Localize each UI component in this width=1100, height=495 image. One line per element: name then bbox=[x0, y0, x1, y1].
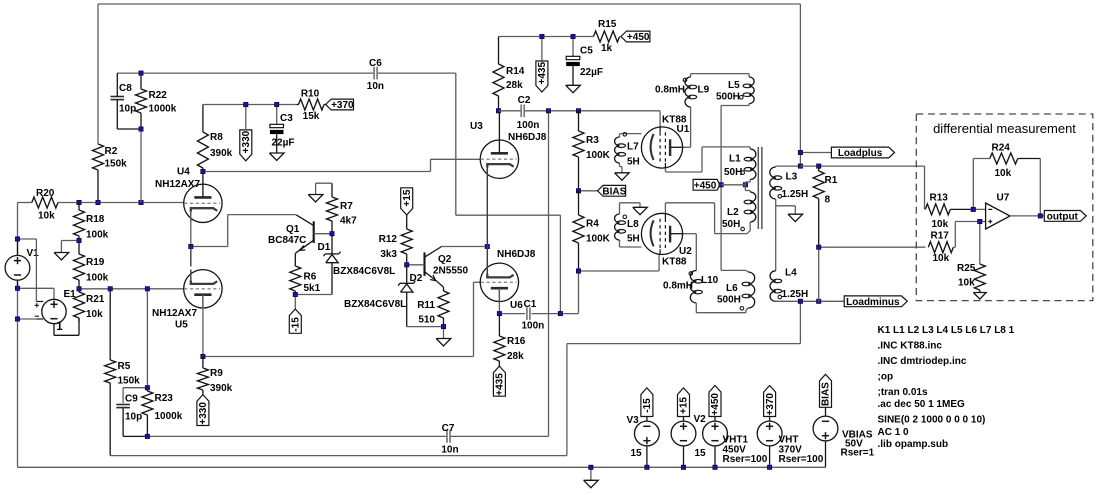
net flag +450 top bbox=[621, 31, 650, 43]
svg-text:R1: R1 bbox=[825, 175, 838, 186]
wire U6 plate to C1 bbox=[498, 288, 500, 313]
svg-text:L5: L5 bbox=[728, 80, 740, 91]
wire L7 to ground bbox=[620, 163, 622, 173]
capacitor C1 bbox=[499, 307, 560, 320]
label C7 bbox=[441, 423, 458, 456]
svg-text:+370: +370 bbox=[765, 393, 776, 416]
svg-text:+330: +330 bbox=[198, 402, 209, 425]
label R15 bbox=[598, 19, 617, 54]
label R24 bbox=[992, 143, 1012, 180]
net flag +435 below R16 bbox=[493, 366, 505, 396]
junction dots source rail bbox=[645, 465, 772, 469]
label U7 bbox=[997, 193, 1010, 204]
svg-text:.INC KT88.inc: .INC KT88.inc bbox=[878, 341, 943, 352]
svg-text:KT88: KT88 bbox=[662, 257, 687, 268]
label L2 bbox=[722, 207, 740, 230]
net flag BIAS bbox=[579, 185, 627, 197]
resistor R14 bbox=[493, 37, 504, 111]
label R18 bbox=[86, 214, 109, 241]
ground R11 bbox=[436, 339, 451, 346]
pentode U2 KT88 bbox=[641, 213, 683, 254]
capacitor C2 bbox=[521, 105, 524, 118]
label VHT1 bbox=[723, 435, 768, 466]
svg-text:100K: 100K bbox=[586, 234, 611, 245]
resistor R11 bbox=[438, 291, 449, 327]
svg-text:NH6DJ8: NH6DJ8 bbox=[508, 132, 547, 143]
inductor L9 bbox=[683, 77, 697, 107]
junction dots R8 row bbox=[244, 102, 279, 106]
svg-text:5H: 5H bbox=[627, 234, 640, 245]
svg-text:15: 15 bbox=[631, 448, 643, 459]
svg-text:R9: R9 bbox=[210, 368, 223, 379]
triode U5 NH12AX7 bbox=[184, 247, 222, 309]
diode D1 BZX84C6V8L bbox=[323, 234, 340, 295]
wire Loadplus stub bbox=[800, 152, 831, 154]
svg-text:5H: 5H bbox=[627, 157, 640, 168]
svg-text:U2: U2 bbox=[679, 246, 692, 257]
svg-text:R14: R14 bbox=[506, 66, 525, 77]
label R9 bbox=[210, 368, 233, 394]
label U3 bbox=[470, 121, 547, 143]
inductor L4 bbox=[770, 271, 782, 302]
junction dots V1/E1 bbox=[15, 237, 19, 321]
resistor R23 bbox=[142, 388, 153, 437]
junction dots R22 bbox=[139, 71, 143, 131]
wire U4 grid row bbox=[58, 202, 184, 204]
junction dot U5 plate bbox=[201, 354, 205, 358]
svg-text:BZX84C6V8L: BZX84C6V8L bbox=[333, 266, 395, 277]
label C6 bbox=[367, 58, 384, 92]
wire top supply row bbox=[499, 36, 594, 38]
label U6 tube bbox=[497, 249, 536, 260]
resistor R15 bbox=[594, 31, 620, 42]
resistor R16 bbox=[494, 314, 505, 367]
net flag Loadminus bbox=[844, 296, 907, 308]
svg-text:22µF: 22µF bbox=[580, 67, 603, 78]
label R16 bbox=[507, 336, 526, 362]
svg-text:L3: L3 bbox=[786, 172, 798, 183]
ground R7 bbox=[308, 195, 323, 202]
label C1 bbox=[510, 299, 544, 332]
resistor R7 bbox=[327, 183, 338, 234]
wire L3 bottom to L4 top bbox=[775, 199, 777, 271]
svg-text:L10: L10 bbox=[701, 275, 719, 286]
diode D2 BZX84C6V8L bbox=[398, 265, 415, 327]
label differential measurement bbox=[933, 121, 1076, 136]
label L4 bbox=[782, 268, 809, 301]
resistor R13 bbox=[925, 204, 973, 215]
label R25 bbox=[957, 263, 976, 289]
svg-text:C6: C6 bbox=[369, 58, 382, 69]
net flag output bbox=[1044, 211, 1086, 223]
wire Q2 collector bbox=[442, 246, 488, 248]
label U5 bbox=[152, 308, 197, 331]
label C9 bbox=[125, 394, 142, 423]
resistor R22 bbox=[136, 73, 147, 129]
wire R23 top drop bbox=[146, 289, 148, 388]
svg-text:1.25H: 1.25H bbox=[782, 189, 809, 200]
svg-text:Rser=1: Rser=1 bbox=[841, 448, 875, 459]
svg-text:R22: R22 bbox=[149, 90, 168, 101]
svg-text:C2: C2 bbox=[518, 95, 531, 106]
svg-text:100k: 100k bbox=[86, 273, 109, 284]
label L5 bbox=[716, 80, 740, 103]
wire C8R22 top bbox=[117, 72, 141, 74]
svg-text:R5: R5 bbox=[118, 361, 131, 372]
svg-text:1k: 1k bbox=[601, 43, 613, 54]
svg-text:+330: +330 bbox=[241, 130, 252, 153]
svg-text:+435: +435 bbox=[537, 62, 548, 85]
net flag +450 transformer bbox=[693, 179, 720, 191]
label D2 bbox=[344, 273, 423, 310]
svg-text:R18: R18 bbox=[86, 214, 105, 225]
wire R1 bottom drop bbox=[818, 247, 820, 301]
svg-text:+450: +450 bbox=[710, 393, 721, 416]
svg-text:-15: -15 bbox=[291, 317, 302, 332]
svg-text:R25: R25 bbox=[957, 263, 976, 274]
wire U5 plate to U6 grid bbox=[203, 282, 480, 356]
label R12 bbox=[379, 234, 398, 260]
svg-text:SINE(0 2 1000 0 0 0 10): SINE(0 2 1000 0 0 0 10) bbox=[878, 414, 986, 425]
svg-text:V2: V2 bbox=[694, 414, 707, 425]
svg-text:C3: C3 bbox=[280, 113, 293, 124]
svg-text:0.8mH: 0.8mH bbox=[663, 281, 693, 292]
label L8 bbox=[627, 219, 640, 245]
svg-text:+15: +15 bbox=[679, 397, 690, 414]
junction dot U4 cathode bbox=[189, 244, 193, 248]
svg-text:22µF: 22µF bbox=[272, 138, 295, 149]
svg-text:L4: L4 bbox=[785, 268, 797, 279]
label R2 bbox=[105, 146, 128, 170]
wire D2 to R11 bottom bbox=[407, 327, 444, 339]
triode U6 NH6DJ8 bbox=[480, 263, 518, 301]
svg-text:10k: 10k bbox=[932, 219, 949, 230]
net flag +330 bbox=[240, 105, 252, 161]
svg-text:0.8mH: 0.8mH bbox=[655, 85, 685, 96]
inductor L8 bbox=[615, 214, 627, 240]
svg-text:5k1: 5k1 bbox=[304, 283, 321, 294]
svg-text:R12: R12 bbox=[379, 234, 398, 245]
wire R6 to D1 bbox=[295, 294, 332, 296]
svg-text:R20: R20 bbox=[36, 188, 55, 199]
wire L5 bottom to +450 node bbox=[721, 104, 749, 271]
ground L3 bbox=[788, 214, 803, 221]
svg-text:+15: +15 bbox=[402, 189, 413, 206]
svg-text:10n: 10n bbox=[367, 81, 384, 92]
svg-text:R2: R2 bbox=[105, 146, 118, 157]
svg-text:3k3: 3k3 bbox=[380, 249, 397, 260]
resistor R19 bbox=[74, 241, 85, 289]
label R20 bbox=[36, 188, 55, 222]
label R6 bbox=[304, 272, 321, 295]
svg-text:+435: +435 bbox=[495, 373, 506, 396]
wire E1 bottom to R21 bottom bbox=[54, 318, 79, 335]
wire U4 cathode to Q1 bbox=[191, 212, 296, 247]
svg-text:10n: 10n bbox=[441, 445, 458, 456]
svg-text:NH12AX7: NH12AX7 bbox=[155, 179, 200, 190]
svg-text:U4: U4 bbox=[177, 167, 190, 178]
resistor R2 bbox=[93, 144, 104, 203]
svg-text:C8: C8 bbox=[119, 83, 132, 94]
svg-text:28k: 28k bbox=[507, 351, 524, 362]
resistor R1 bbox=[813, 166, 824, 247]
wire R25 drop bbox=[979, 222, 981, 265]
ground C3 bbox=[269, 153, 284, 160]
wire U3 cathode line bbox=[486, 168, 488, 266]
resistor R18 bbox=[74, 203, 85, 241]
svg-text:15: 15 bbox=[695, 448, 707, 459]
wire NFB rail from output bbox=[110, 301, 800, 455]
junction dots grid row bbox=[77, 200, 143, 204]
resistor R25 bbox=[974, 264, 985, 293]
svg-text:R6: R6 bbox=[304, 272, 317, 283]
ground L8 bbox=[633, 207, 648, 214]
wire L6 top from +450 node bbox=[721, 270, 748, 272]
inductor L7 bbox=[615, 133, 627, 164]
wire R24 to output bbox=[1039, 159, 1041, 217]
wire R13 drop bbox=[924, 166, 926, 209]
wire bottom ground rail bbox=[18, 466, 826, 468]
wire L3 top to Loadplus node bbox=[776, 165, 801, 168]
label R10 bbox=[301, 89, 320, 123]
svg-text:R19: R19 bbox=[86, 257, 105, 268]
svg-text:2N5550: 2N5550 bbox=[433, 266, 468, 277]
junction dots C2 row bbox=[546, 109, 580, 113]
wire top feedback loop bbox=[98, 4, 800, 166]
resistor R3 bbox=[573, 111, 584, 191]
label R22 bbox=[149, 90, 177, 115]
svg-text:R21: R21 bbox=[86, 294, 105, 305]
label V2 bbox=[694, 414, 707, 459]
svg-text:50H: 50H bbox=[722, 219, 740, 230]
svg-text:R16: R16 bbox=[507, 336, 526, 347]
svg-text:1000k: 1000k bbox=[149, 104, 177, 115]
wire R7 top to ground bbox=[316, 183, 332, 194]
svg-text:D1: D1 bbox=[318, 242, 331, 253]
svg-text:Loadplus: Loadplus bbox=[838, 148, 883, 159]
label L1 bbox=[724, 154, 742, 179]
svg-text:1000k: 1000k bbox=[155, 411, 183, 422]
triode U3 NH6DJ8 bbox=[480, 111, 518, 179]
label L9 bbox=[655, 85, 710, 96]
wire noninv input bbox=[953, 222, 985, 248]
inductor L10 bbox=[689, 271, 702, 303]
wire U1 plate to L9 bbox=[684, 107, 691, 147]
svg-text:1: 1 bbox=[56, 321, 63, 333]
ground C5 bbox=[566, 85, 581, 92]
svg-text:Rser=100: Rser=100 bbox=[723, 454, 768, 465]
wire R18 ground branch bbox=[61, 241, 79, 253]
label U1 bbox=[662, 115, 690, 136]
wire U5 grid row bbox=[79, 288, 184, 290]
resistor R24 bbox=[990, 153, 1041, 164]
spice directive text block bbox=[878, 325, 1015, 450]
junction dot BIAS bbox=[576, 189, 580, 193]
svg-text:L9: L9 bbox=[698, 85, 710, 96]
net flag -15 below R6 bbox=[289, 295, 301, 334]
svg-text:+450: +450 bbox=[694, 180, 717, 191]
resistor R21 bbox=[74, 289, 85, 322]
inductor L2 bbox=[741, 192, 756, 231]
svg-text:10p: 10p bbox=[119, 104, 136, 115]
net flag +15 above R12 bbox=[401, 188, 413, 229]
inductor L1 bbox=[741, 149, 756, 180]
svg-text:.ac dec 50 1 1MEG: .ac dec 50 1 1MEG bbox=[878, 399, 965, 410]
junction dots Q2 bbox=[405, 244, 490, 328]
label E1 bbox=[64, 289, 77, 300]
label V1 bbox=[27, 248, 40, 259]
svg-text:BC847C: BC847C bbox=[268, 235, 306, 246]
svg-text:U1: U1 bbox=[677, 124, 690, 135]
svg-text:R8: R8 bbox=[210, 132, 223, 143]
resistor R5 bbox=[105, 289, 116, 456]
svg-text:100n: 100n bbox=[522, 321, 545, 332]
ground L7 bbox=[615, 173, 630, 180]
svg-text:;op: ;op bbox=[878, 372, 894, 383]
label R1 bbox=[825, 175, 838, 206]
wire V1 to E1 + control bbox=[18, 239, 37, 302]
inductor L6 bbox=[740, 272, 755, 310]
svg-text:500H: 500H bbox=[717, 295, 741, 306]
wire L9 top to L5 top bbox=[691, 74, 750, 77]
wire Q1 base bbox=[314, 233, 332, 235]
wire R4 to U2 grid bbox=[579, 254, 660, 271]
junction dots top row bbox=[496, 34, 575, 113]
svg-text:K1 L1 L2 L3 L4 L5 L6 L7 L8 1: K1 L1 L2 L3 L4 L5 L6 L7 L8 1 bbox=[878, 325, 1015, 336]
svg-text:R13: R13 bbox=[930, 193, 949, 204]
svg-text:8: 8 bbox=[825, 195, 831, 206]
svg-text:R15: R15 bbox=[598, 19, 617, 30]
svg-text:150k: 150k bbox=[105, 159, 128, 170]
ground R18 bbox=[54, 253, 69, 260]
junction dots +450 node bbox=[719, 183, 748, 187]
voltage source V3 with -15 flag bbox=[635, 388, 660, 467]
resistor R17 bbox=[928, 242, 953, 253]
svg-text:BIAS: BIAS bbox=[602, 186, 626, 197]
junction dots R18 chain bbox=[77, 238, 81, 291]
wire C6 drop to C1 node bbox=[456, 73, 561, 314]
junction dot main ground bbox=[589, 465, 593, 469]
wire U1 screen to L1 top bbox=[666, 147, 751, 172]
svg-text:C5: C5 bbox=[580, 46, 593, 57]
svg-text:BIAS: BIAS bbox=[821, 382, 832, 406]
wire C9 top bbox=[123, 388, 147, 403]
svg-text:100K: 100K bbox=[586, 150, 611, 161]
svg-text:R24: R24 bbox=[992, 143, 1011, 154]
transistor Q1 BC847C bbox=[295, 215, 313, 266]
inductor L3 bbox=[770, 167, 782, 199]
wire L4 bottom row bbox=[776, 300, 845, 302]
junction dot R4 bottom bbox=[576, 269, 580, 273]
svg-text:.lib opamp.sub: .lib opamp.sub bbox=[878, 439, 949, 450]
svg-text:differential measurement: differential measurement bbox=[933, 121, 1076, 136]
wire E1 - control bbox=[18, 318, 37, 320]
svg-text:V1: V1 bbox=[27, 248, 40, 259]
wire L10 bottom to L6 bottom bbox=[696, 303, 748, 313]
op-amp U7 bbox=[986, 203, 1010, 229]
svg-text:L1: L1 bbox=[729, 154, 741, 165]
wire U2 cathode to L8 bbox=[620, 240, 642, 247]
label VHT bbox=[779, 435, 824, 466]
resistor R20 bbox=[32, 197, 58, 208]
transistor Q2 2N5550 bbox=[425, 247, 444, 292]
wire U4 plate row bbox=[203, 159, 481, 171]
capacitor C7 bbox=[447, 430, 450, 443]
resistor R4 bbox=[573, 191, 584, 271]
svg-text:500H: 500H bbox=[716, 92, 740, 103]
wire L3 ground branch bbox=[776, 206, 796, 214]
svg-text:L8: L8 bbox=[627, 219, 639, 230]
svg-text:.INC dmtriodep.inc: .INC dmtriodep.inc bbox=[878, 356, 967, 367]
svg-text:NH12AX7: NH12AX7 bbox=[152, 308, 197, 319]
svg-text:NH6DJ8: NH6DJ8 bbox=[497, 249, 536, 260]
inductor L5 bbox=[740, 77, 755, 104]
label R3 bbox=[586, 135, 611, 161]
wire L8 top to ground bbox=[620, 203, 641, 214]
label R17 bbox=[931, 231, 950, 265]
svg-text:C1: C1 bbox=[524, 299, 537, 310]
label VBIAS bbox=[841, 430, 875, 459]
label L3 bbox=[782, 172, 809, 200]
wire left drop to V1 bbox=[18, 202, 32, 204]
capacitor C5 bbox=[566, 37, 580, 86]
voltage source V2 with +15 flag bbox=[671, 388, 696, 467]
net flag Loadplus bbox=[831, 147, 894, 159]
voltage source VHT with +370 flag bbox=[757, 386, 782, 468]
svg-text:U6: U6 bbox=[510, 300, 523, 311]
label R21 bbox=[86, 294, 105, 320]
capacitor C8 bbox=[111, 73, 142, 129]
svg-text:AC 1 0: AC 1 0 bbox=[878, 427, 910, 438]
label L7 bbox=[627, 142, 640, 168]
svg-text:;tran 0.01s: ;tran 0.01s bbox=[878, 387, 928, 398]
svg-text:R17: R17 bbox=[931, 231, 950, 242]
dependent source E1 bbox=[35, 299, 67, 333]
svg-text:U3: U3 bbox=[470, 121, 483, 132]
wire Q2 base bbox=[407, 264, 425, 266]
label U2 bbox=[662, 246, 692, 268]
svg-text:R11: R11 bbox=[417, 300, 435, 311]
wire upper diff row bbox=[800, 165, 924, 167]
wire C2 row bbox=[499, 111, 661, 127]
svg-text:R4: R4 bbox=[586, 219, 599, 230]
svg-text:4k7: 4k7 bbox=[340, 216, 357, 227]
label L10 bbox=[663, 275, 719, 292]
label C5 bbox=[580, 46, 603, 79]
svg-text:15k: 15k bbox=[303, 111, 320, 122]
pentode U1 KT88 bbox=[641, 127, 683, 168]
wire +450 to tap bbox=[721, 184, 745, 186]
svg-text:390k: 390k bbox=[210, 148, 233, 159]
label R13 bbox=[930, 193, 949, 231]
svg-text:output: output bbox=[1047, 212, 1079, 223]
svg-text:D2: D2 bbox=[410, 273, 423, 284]
wire C7 rail bbox=[147, 111, 548, 437]
svg-text:Q1: Q1 bbox=[286, 224, 300, 235]
label C3 bbox=[272, 113, 295, 149]
wire R8 top row bbox=[203, 104, 297, 106]
junction dots Q1 bbox=[293, 232, 334, 297]
svg-text:1.25H: 1.25H bbox=[782, 289, 809, 300]
label L6 bbox=[717, 283, 741, 306]
wire lower diff row bbox=[819, 246, 926, 248]
wire R22 bottom drop bbox=[140, 129, 142, 203]
svg-text:R10: R10 bbox=[301, 89, 320, 100]
wire C6 row bbox=[141, 72, 456, 74]
net flag +435 below top row bbox=[536, 37, 548, 93]
label Q1 bbox=[268, 224, 306, 246]
transformer core bbox=[758, 147, 762, 229]
